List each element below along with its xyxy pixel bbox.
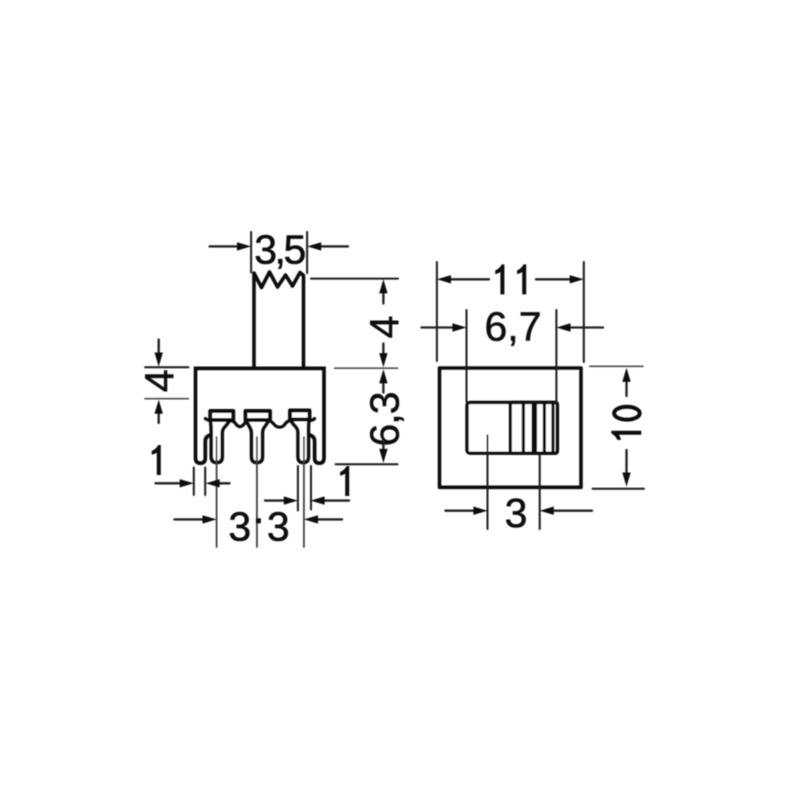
left view: switch body outline with mounting legs <box>196 368 325 463</box>
dimension 11: extension lines <box>437 262 584 362</box>
svg-text:3: 3 <box>267 504 290 550</box>
shared extension line at body top <box>335 367 398 369</box>
left 1: extension lines <box>194 468 205 496</box>
dimension 4: down arrow <box>382 344 384 354</box>
pin 3 center line <box>303 437 305 547</box>
svg-text:3,5: 3,5 <box>254 227 305 273</box>
terminal 1 cap <box>210 411 233 420</box>
left 4: up arrow below <box>158 414 160 424</box>
right 1: extension lines <box>298 466 311 511</box>
terminal 1 pin <box>211 421 230 463</box>
pin 2 center line <box>256 437 258 547</box>
right 1: left arrow <box>265 499 285 501</box>
svg-text:4: 4 <box>361 316 407 339</box>
svg-text:3: 3 <box>228 504 251 550</box>
svg-text:4: 4 <box>137 369 183 392</box>
right view: slider knob <box>510 402 557 453</box>
dimension 3,5: extension lines <box>251 232 307 273</box>
terminal 2 cap <box>246 411 271 420</box>
dimension 10: bottom extension line <box>593 488 645 490</box>
3-3: separator dot <box>256 518 261 523</box>
dimension 1 (pin 3 width): label <box>340 466 349 496</box>
dimension 3,5: right arrow <box>321 245 348 247</box>
dimension 6,3: down arrow <box>382 440 384 449</box>
right 1: right arrow <box>324 499 349 501</box>
dimension 11: label <box>495 264 504 294</box>
dimension 10: down arrow <box>625 450 627 473</box>
svg-text:6,3: 6,3 <box>361 393 407 447</box>
dimension 6,3: bottom extension line <box>336 463 398 465</box>
left 4: bottom extension line <box>145 398 188 400</box>
dimension 6,3: up arrow <box>382 384 384 393</box>
left 1: left arrow <box>156 482 182 484</box>
dimension 3 (knob width): extension lines <box>488 435 540 529</box>
pin 1 center line <box>216 437 218 547</box>
dimension 6,7: left arrow (outside) <box>422 326 454 328</box>
left 4: down arrow above <box>158 340 160 353</box>
dimension 10: top extension line <box>590 365 643 367</box>
knob serration lines <box>523 404 553 451</box>
svg-text:3: 3 <box>505 490 528 536</box>
dimension 10: label <box>611 407 641 440</box>
svg-text:6,7: 6,7 <box>485 304 542 350</box>
dimension 4: up arrow <box>382 293 384 304</box>
right view: front face box <box>440 368 582 487</box>
dimension 10: up arrow <box>625 382 627 397</box>
dimension 3: left arrow <box>445 510 474 512</box>
dimension 3: right arrow <box>554 510 593 512</box>
terminal 3 cap <box>290 411 310 420</box>
dimension 1 (left leg width): label <box>152 445 161 475</box>
dimension 11: line with arrows <box>451 278 490 280</box>
terminal 2 pin <box>247 421 269 463</box>
dimension 3-3 (pin pitch): left arrow <box>174 518 203 520</box>
left view: scalloped body bottom edge <box>205 419 314 428</box>
right view: slot opening <box>467 402 557 453</box>
dimension 4 (left, body top section): top extension line <box>145 366 188 368</box>
terminal 3 pin <box>291 421 309 463</box>
left view: actuator with serrated (zigzag) top <box>254 272 304 367</box>
left 1: right arrow <box>219 482 230 484</box>
dimension 6,7: extension lines <box>467 310 557 402</box>
dimension 4 (actuator height): top extension line <box>311 278 398 280</box>
dimension 6,7: right arrow (outside) <box>570 326 603 328</box>
dimension 3,5: left arrow <box>210 245 238 247</box>
3-3: right arrow <box>318 518 342 520</box>
